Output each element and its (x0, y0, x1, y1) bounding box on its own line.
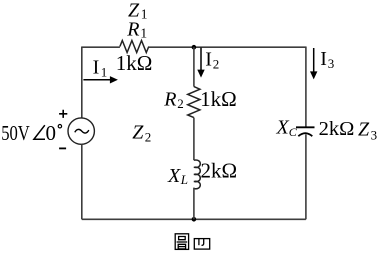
caption glyph tu (figure) (175, 234, 188, 250)
svg-text:0: 0 (46, 121, 57, 145)
svg-text:I: I (93, 57, 100, 79)
svg-text:2: 2 (213, 56, 220, 71)
wire top-right horizontal (149, 46, 306, 48)
angle symbol (34, 125, 45, 139)
node junction top (192, 45, 197, 50)
svg-text:1: 1 (141, 6, 148, 21)
svg-text:1kΩ: 1kΩ (116, 51, 153, 75)
plus sign (59, 110, 67, 118)
degree symbol (58, 125, 61, 128)
wire bottom horizontal (82, 218, 306, 220)
svg-text:R: R (163, 89, 176, 111)
resistor R1 (120, 41, 149, 53)
resistor R2 (188, 87, 200, 118)
svg-text:L: L (180, 172, 188, 187)
wire middle lower vertical (193, 188, 195, 220)
wire middle mid vertical (193, 118, 195, 161)
wire right lower vertical (305, 134, 307, 219)
svg-text:X: X (276, 117, 290, 139)
capacitor XC top plate (296, 126, 315, 128)
svg-text:C: C (289, 125, 298, 139)
source V1 tilde (75, 129, 89, 133)
svg-text:I: I (320, 48, 327, 70)
svg-text:3: 3 (328, 56, 335, 71)
svg-text:50V: 50V (1, 121, 30, 145)
svg-text:I: I (205, 49, 212, 71)
svg-text:1: 1 (140, 25, 147, 40)
caption glyph si (four) (194, 239, 209, 250)
svg-text:1kΩ: 1kΩ (200, 87, 237, 111)
source V1 circle (68, 118, 94, 144)
current arrow I3 (313, 48, 315, 72)
current arrow I2 (200, 48, 202, 71)
wire left upper vertical (81, 47, 83, 119)
svg-text:R: R (126, 19, 139, 41)
svg-text:2kΩ: 2kΩ (201, 158, 238, 182)
svg-text:2: 2 (145, 130, 152, 145)
node junction bottom (192, 217, 197, 222)
svg-text:2: 2 (177, 96, 184, 111)
inductor XL (194, 160, 200, 189)
current arrow I1 (83, 79, 110, 81)
minus sign (59, 147, 66, 149)
wire right upper vertical (305, 47, 307, 127)
svg-text:2kΩ: 2kΩ (319, 118, 355, 140)
svg-text:1: 1 (101, 64, 108, 79)
capacitor XC bottom curved plate (298, 133, 312, 136)
wire top-left horizontal (82, 46, 120, 48)
wire middle upper vertical (193, 47, 195, 86)
svg-text:X: X (167, 165, 181, 187)
wire left lower vertical (81, 144, 83, 219)
svg-text:Z: Z (132, 121, 144, 143)
svg-text:3: 3 (371, 127, 378, 142)
svg-text:Z: Z (358, 118, 370, 140)
